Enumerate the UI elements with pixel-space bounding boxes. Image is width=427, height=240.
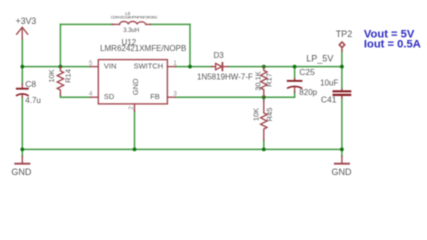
svg-text:TP2: TP2 xyxy=(336,29,353,39)
svg-text:FB: FB xyxy=(150,92,160,101)
svg-text:LP_5V: LP_5V xyxy=(306,53,333,63)
svg-text:GND: GND xyxy=(11,167,32,177)
svg-text:4.7u: 4.7u xyxy=(25,96,41,105)
svg-text:C41: C41 xyxy=(321,94,337,104)
svg-text:GND: GND xyxy=(131,78,140,95)
svg-text:R17: R17 xyxy=(265,73,274,87)
svg-text:3.3uH: 3.3uH xyxy=(123,28,139,34)
svg-text:10K: 10K xyxy=(47,69,56,82)
svg-text:2: 2 xyxy=(128,106,135,110)
svg-text:1: 1 xyxy=(173,60,177,67)
svg-text:VIN: VIN xyxy=(104,61,117,70)
svg-text:C25: C25 xyxy=(299,67,315,77)
svg-text:D3: D3 xyxy=(214,51,225,60)
svg-text:10uF: 10uF xyxy=(320,78,338,87)
svg-text:1N5819HW-7-F: 1N5819HW-7-F xyxy=(197,72,253,81)
svg-text:R45: R45 xyxy=(265,108,274,122)
svg-text:SWITCH: SWITCH xyxy=(134,61,164,70)
svg-text:GND: GND xyxy=(332,167,353,177)
svg-text:4: 4 xyxy=(89,91,93,98)
svg-text:+3V3: +3V3 xyxy=(16,16,37,26)
svg-text:30.1K: 30.1K xyxy=(254,71,263,91)
svg-text:3: 3 xyxy=(173,91,177,98)
svg-text:C8: C8 xyxy=(25,79,36,89)
svg-text:10K: 10K xyxy=(252,108,261,121)
svg-text:R14: R14 xyxy=(64,69,73,83)
svg-text:CDRH2D18/HPNP/NF/3R3NC: CDRH2D18/HPNP/NF/3R3NC xyxy=(111,15,158,20)
svg-text:5: 5 xyxy=(89,60,93,67)
svg-text:LMR62421XMFE/NOPB: LMR62421XMFE/NOPB xyxy=(100,44,186,53)
svg-text:820p: 820p xyxy=(299,88,317,97)
svg-text:SD: SD xyxy=(104,92,115,101)
svg-text:Iout = 0.5A: Iout = 0.5A xyxy=(364,39,421,51)
